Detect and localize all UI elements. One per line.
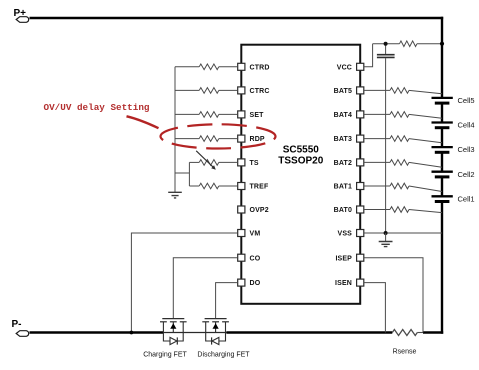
svg-text:TS: TS [250,160,259,167]
svg-text:CTRC: CTRC [250,88,270,95]
terminal P+ [14,8,29,22]
terminal P- [12,319,29,336]
ground VSS [379,233,393,247]
wire DO to discharging FET gate [216,283,238,319]
resistor R-BAT1 [364,183,442,191]
wire left rail [174,67,176,192]
svg-text:Rsense: Rsense [393,349,417,356]
pin VCC [337,63,364,71]
wire ISEP [364,258,423,333]
wire VM [131,233,237,333]
svg-text:OVP2: OVP2 [250,207,269,214]
op-amp U1 SC5550 IC body [241,45,360,304]
svg-text:VSS: VSS [338,231,353,238]
svg-text:Discharging FET: Discharging FET [197,352,250,359]
svg-text:BAT4: BAT4 [334,112,352,119]
transistor Q2 discharging FET [197,319,250,359]
pin TS [238,159,259,167]
resistor RSET [175,112,238,118]
junction vcc-bus [440,42,444,46]
svg-text:Cell5: Cell5 [458,96,475,105]
wire between FETs [164,332,227,334]
svg-text:TREF: TREF [250,184,269,191]
wire CO to charging FET gate [173,258,237,319]
wire P- rail left [30,331,164,333]
resistor Rsense [392,330,417,336]
battery Cell5 [432,96,475,105]
svg-text:ISEP: ISEP [335,255,352,262]
pin BAT5 [334,87,364,95]
svg-text:Charging FET: Charging FET [143,352,187,359]
transistor Q1 charging FET [143,319,187,359]
svg-text:Cell2: Cell2 [458,170,475,179]
battery Cell3 [432,145,475,154]
svg-text:VM: VM [250,231,261,238]
annotation pointer [127,116,159,128]
resistor R-BAT4 [364,112,442,119]
wire P+ top rail [30,17,444,19]
pin BAT0 [334,206,364,214]
resistor RCTRC [175,88,238,94]
svg-text:Cell1: Cell1 [458,194,475,203]
svg-text:BAT5: BAT5 [334,88,352,95]
pin CTRD [238,63,270,71]
battery Cell1 [432,194,475,203]
pin CTRC [238,87,270,95]
pin OVP2 [238,206,269,214]
resistor R-BAT5 [364,88,442,94]
svg-text:ISEN: ISEN [335,280,352,287]
svg-text:BAT2: BAT2 [334,160,352,167]
svg-text:DO: DO [250,280,261,287]
battery Cell4 [432,121,475,130]
pin BAT1 [334,183,364,191]
svg-text:TSSOP20: TSSOP20 [278,156,323,167]
junction cap-top [384,42,388,46]
pin BAT2 [334,159,364,167]
wire Rsense to bus corner [417,332,423,334]
wire P- rail to Rsense [226,331,392,333]
resistor R-BAT3 [364,136,442,143]
svg-text:CTRD: CTRD [250,64,270,71]
pin BAT4 [334,111,364,119]
svg-text:OV/UV delay Setting: OV/UV delay Setting [44,102,150,113]
pin DO [238,279,261,287]
pin TREF [238,183,269,191]
svg-text:SC5550: SC5550 [283,144,320,155]
svg-text:SET: SET [250,112,265,119]
svg-text:BAT1: BAT1 [334,184,352,191]
wire VCC filter [373,43,442,45]
junction VM-rail [130,331,134,335]
battery Cell2 [432,170,475,179]
wire VCC pin riser [364,44,373,67]
svg-text:BAT0: BAT0 [334,207,352,214]
svg-text:BAT3: BAT3 [334,136,352,143]
pin VM [238,230,261,238]
svg-text:Cell4: Cell4 [458,121,475,130]
pin ISEP [335,254,363,262]
capacitor C1 [377,44,395,233]
pin BAT3 [334,135,364,143]
svg-text:P-: P- [12,319,22,330]
junction VSS-cap-ground [384,231,388,235]
svg-text:VCC: VCC [337,64,352,71]
svg-text:CO: CO [250,255,261,262]
wire ISEN [364,283,386,333]
wire VSS to bus [364,232,442,234]
resistor RCTRD [175,64,238,70]
resistor R-BAT0 [364,207,442,213]
pin CO [238,254,261,262]
wire TS-TREF bracket [175,162,189,186]
resistor RRDP [175,136,238,142]
resistor R-TREF [189,183,237,189]
resistor R-VCC [400,41,418,47]
pin SET [238,111,264,119]
resistor R-BAT2 [364,160,442,168]
thermistor R-TS [189,151,237,170]
svg-text:Cell3: Cell3 [458,145,475,154]
ground left [168,192,182,198]
pin ISEN [335,279,364,287]
pin VSS [338,230,364,238]
annotation ellipse around RDP [161,124,276,148]
svg-text:P+: P+ [14,8,27,19]
svg-text:RDP: RDP [250,136,265,143]
wire battery bus right [441,17,443,98]
pin RDP [238,135,265,143]
